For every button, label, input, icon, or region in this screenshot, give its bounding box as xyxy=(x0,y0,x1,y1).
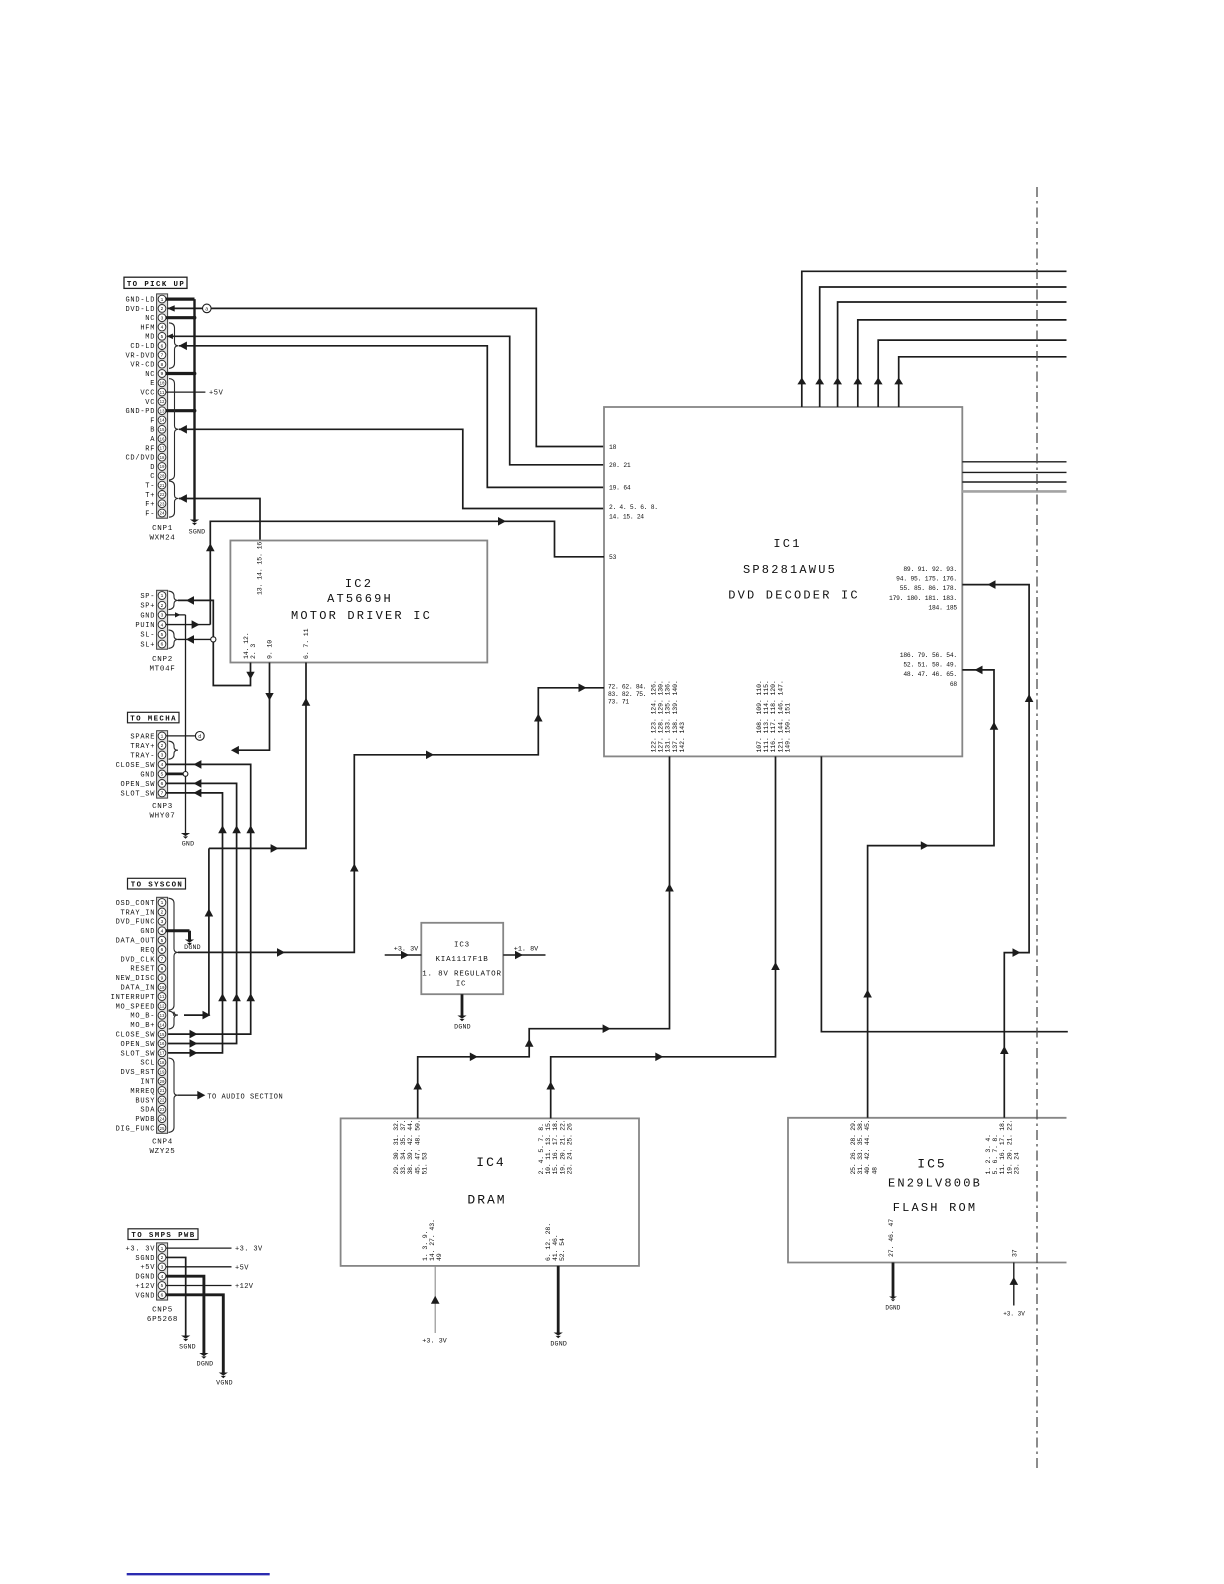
svg-text:72. 62. 84.: 72. 62. 84. xyxy=(608,684,646,691)
svg-text:GND: GND xyxy=(140,771,155,779)
blue footer line xyxy=(127,1573,270,1575)
bus wire 3 from IC1 top to sheet edge xyxy=(833,302,1066,407)
sheet boundary dash-dot line xyxy=(1036,187,1038,1468)
svg-text:IC2: IC2 xyxy=(345,577,373,591)
svg-text:INTERRUPT: INTERRUPT xyxy=(111,994,156,1002)
svg-text:T-: T- xyxy=(145,483,155,491)
svg-text:13. 14. 15. 16: 13. 14. 15. 16 xyxy=(256,542,263,595)
bus wire from IC1 right side 4 (gray) xyxy=(962,490,1066,493)
svg-text:+3. 3V: +3. 3V xyxy=(235,1246,263,1254)
brace CNP1 pins 21-24 xyxy=(169,481,179,517)
svg-text:45. 47. 48. 50.: 45. 47. 48. 50. xyxy=(414,1120,421,1175)
svg-text:CNP5: CNP5 xyxy=(152,1307,173,1315)
svg-text:6: 6 xyxy=(161,343,164,349)
svg-text:MOTOR DRIVER IC: MOTOR DRIVER IC xyxy=(291,609,432,623)
wire CNP3 SLOT_SW to CNP4 SLOT_SW xyxy=(166,789,227,1058)
svg-text:DGND: DGND xyxy=(197,1361,214,1368)
brace CNP3 pins 2-3 xyxy=(169,741,179,759)
svg-text:CNP3: CNP3 xyxy=(152,803,173,811)
IC4 bottom right pin labels 6,12,28,41,46,52,54 xyxy=(545,1223,566,1261)
svg-text:MO_SPEED: MO_SPEED xyxy=(116,1003,156,1011)
svg-text:1. 3. 9.: 1. 3. 9. xyxy=(422,1231,429,1261)
bus wire 1 from IC1 top to sheet edge xyxy=(797,271,1066,407)
svg-text:VCC: VCC xyxy=(140,390,155,398)
brace CNP2 pins 5-6 xyxy=(169,630,179,649)
connector CNP5 6P5268 xyxy=(125,1243,178,1324)
svg-text:4: 4 xyxy=(161,325,164,331)
svg-text:4: 4 xyxy=(161,762,164,768)
svg-text:20. 21: 20. 21 xyxy=(609,462,631,469)
svg-text:FLASH ROM: FLASH ROM xyxy=(893,1201,978,1215)
svg-text:5: 5 xyxy=(161,334,164,340)
svg-text:19: 19 xyxy=(159,1071,165,1075)
svg-text:+5V: +5V xyxy=(209,390,224,398)
svg-text:10. 11. 13. 15.: 10. 11. 13. 15. xyxy=(545,1120,552,1175)
svg-text:SLOT_SW: SLOT_SW xyxy=(121,1050,156,1058)
svg-text:1: 1 xyxy=(161,297,164,303)
svg-text:6. 7. 11: 6. 7. 11 xyxy=(303,628,310,659)
wire CNP1 DVD-LD pin 2 to IC1 pin 18 xyxy=(167,305,604,446)
ground symbol SGND under CNP1 bus xyxy=(189,520,206,536)
svg-text:1: 1 xyxy=(161,734,164,740)
bus wire from IC1 right side 2 xyxy=(962,471,1066,473)
IC U2 IC2 AT5669H motor driver xyxy=(230,541,487,663)
node d on CNP3 SPARE pin 1 xyxy=(166,732,204,741)
svg-text:CLOSE_SW: CLOSE_SW xyxy=(116,1032,156,1040)
svg-text:RESET: RESET xyxy=(130,966,155,974)
node a on DVD-LD wire xyxy=(203,304,212,313)
svg-text:179. 180. 181. 183.: 179. 180. 181. 183. xyxy=(889,595,957,602)
svg-text:29. 30. 31. 32.: 29. 30. 31. 32. xyxy=(393,1120,400,1175)
svg-text:DVD_FUNC: DVD_FUNC xyxy=(116,919,156,927)
svg-text:4: 4 xyxy=(161,622,164,628)
brace CNP1 pins 4-8 xyxy=(169,323,179,369)
svg-text:HFM: HFM xyxy=(140,324,155,332)
svg-text:11. 16. 17. 18.: 11. 16. 17. 18. xyxy=(999,1120,1006,1175)
svg-text:DVS_RST: DVS_RST xyxy=(121,1069,156,1077)
svg-text:REQ: REQ xyxy=(140,947,155,955)
svg-text:27. 46. 47: 27. 46. 47 xyxy=(888,1219,895,1257)
svg-text:MD: MD xyxy=(145,334,155,342)
svg-text:37: 37 xyxy=(1012,1249,1019,1257)
svg-text:IC4: IC4 xyxy=(476,1155,505,1170)
svg-text:16: 16 xyxy=(159,438,165,442)
svg-text:5: 5 xyxy=(161,632,164,638)
wire IC4 right pins to IC1 bottom pins 107-151 xyxy=(546,756,779,1118)
svg-text:SP-: SP- xyxy=(140,593,155,601)
svg-text:VR-DVD: VR-DVD xyxy=(125,352,155,360)
svg-text:13: 13 xyxy=(159,410,165,414)
IC4 top right pin labels 2-26 xyxy=(538,1120,573,1175)
bus wire 6 from IC1 top to sheet edge xyxy=(894,357,1066,407)
wire CNP2 SP pins to IC2 pins 14,12 xyxy=(178,596,255,685)
wire CNP1 pins 4-8 group to IC1 pins 19,64 xyxy=(179,342,604,488)
svg-text:18: 18 xyxy=(609,444,617,451)
svg-text:TO AUDIO SECTION: TO AUDIO SECTION xyxy=(207,1094,283,1102)
svg-text:137. 138. 139. 140.: 137. 138. 139. 140. xyxy=(672,680,679,752)
svg-text:TO SMPS PWB: TO SMPS PWB xyxy=(131,1232,195,1240)
svg-text:+12V: +12V xyxy=(235,1283,254,1291)
connector CNP1 WXM24 xyxy=(125,294,175,543)
svg-text:MO_B+: MO_B+ xyxy=(130,1022,155,1030)
svg-text:149. 150. 151: 149. 150. 151 xyxy=(784,703,791,753)
svg-text:RF: RF xyxy=(145,445,155,453)
svg-text:d: d xyxy=(198,734,201,740)
wire CNP2 PUIN pin 4 to IC1 pin 53 xyxy=(166,517,604,629)
svg-text:2: 2 xyxy=(161,306,164,312)
svg-text:9: 9 xyxy=(161,371,164,377)
svg-text:5. 6. 7. 8.: 5. 6. 7. 8. xyxy=(992,1134,999,1174)
IC U4 IC4 DRAM xyxy=(341,1118,639,1266)
svg-text:15. 16. 17. 18.: 15. 16. 17. 18. xyxy=(552,1120,559,1175)
svg-text:F-: F- xyxy=(145,510,155,518)
svg-text:23: 23 xyxy=(159,1109,165,1113)
svg-text:GND-PD: GND-PD xyxy=(125,408,155,416)
wire IC2 pins 9,10 to CNP3 TRAY pins xyxy=(231,663,274,755)
svg-text:TO MECHA: TO MECHA xyxy=(130,716,177,724)
IC4 top left pin labels 29-53 xyxy=(393,1120,428,1175)
svg-text:9. 10: 9. 10 xyxy=(267,640,274,659)
svg-text:21: 21 xyxy=(159,1090,165,1094)
svg-text:68: 68 xyxy=(950,681,958,688)
svg-text:9: 9 xyxy=(161,975,164,981)
svg-text:53: 53 xyxy=(609,554,617,561)
svg-text:15: 15 xyxy=(159,1034,165,1038)
svg-text:52. 54: 52. 54 xyxy=(559,1238,566,1261)
svg-text:8: 8 xyxy=(161,362,164,368)
IC4 bottom left pin labels 1,3,9,14,27,43,49 xyxy=(422,1219,443,1261)
svg-text:BUSY: BUSY xyxy=(135,1097,155,1105)
ground wire IC5 to DGND xyxy=(892,1263,895,1297)
svg-text:DRAM: DRAM xyxy=(467,1193,506,1208)
svg-text:12: 12 xyxy=(159,401,165,405)
svg-text:5: 5 xyxy=(161,938,164,944)
svg-text:2: 2 xyxy=(161,1255,164,1261)
bus wire from IC1 right side 3 xyxy=(962,481,1066,483)
svg-text:EN29LV800B: EN29LV800B xyxy=(888,1177,982,1191)
svg-text:KIA1117F1B: KIA1117F1B xyxy=(435,956,488,964)
svg-text:DGND: DGND xyxy=(184,944,201,951)
svg-text:VGND: VGND xyxy=(135,1292,155,1300)
svg-text:PWDB: PWDB xyxy=(135,1116,155,1124)
svg-text:8: 8 xyxy=(161,966,164,972)
svg-text:3: 3 xyxy=(161,753,164,759)
svg-text:11: 11 xyxy=(159,392,165,396)
bus wire from IC1 right side 1 xyxy=(962,461,1066,463)
svg-text:MO_B-: MO_B- xyxy=(130,1013,155,1021)
svg-text:6P5268: 6P5268 xyxy=(147,1316,178,1324)
IC5 top right pin labels 1-24 xyxy=(985,1120,1020,1175)
svg-text:SCL: SCL xyxy=(140,1060,155,1068)
IC5 top left pin labels 25-48 xyxy=(850,1120,878,1175)
svg-text:142. 143: 142. 143 xyxy=(679,722,686,753)
svg-text:4: 4 xyxy=(161,1274,164,1280)
ground symbol GND below CNP3 xyxy=(181,833,194,848)
IC U3 IC3 KIA1117F18 1.8V regulator xyxy=(421,923,503,994)
svg-text:SLOT_SW: SLOT_SW xyxy=(121,790,156,798)
svg-text:14. 27. 43.: 14. 27. 43. xyxy=(429,1219,436,1261)
svg-text:TRAY-: TRAY- xyxy=(130,752,155,760)
svg-text:41. 46.: 41. 46. xyxy=(552,1234,559,1261)
svg-text:D: D xyxy=(150,464,155,472)
brace CNP4 pins 13-14 xyxy=(169,1011,179,1029)
svg-text:3: 3 xyxy=(161,315,164,321)
wire IC5 right pins 1-24 to IC1 right pins 89-185 xyxy=(962,580,1033,1118)
wire IC1 bottom pin to sheet edge crossing IC5 wire xyxy=(821,756,1067,1031)
wire CNP5 pin 3 +5V xyxy=(166,1264,249,1272)
svg-text:IC3: IC3 xyxy=(454,941,470,949)
svg-text:107. 108. 109. 110.: 107. 108. 109. 110. xyxy=(756,680,763,752)
svg-text:MT04F: MT04F xyxy=(149,666,175,674)
svg-text:SL-: SL- xyxy=(140,632,155,640)
ground wire IC3 to DGND xyxy=(461,994,464,1015)
svg-text:B: B xyxy=(150,427,155,435)
svg-text:OSD_CONT: OSD_CONT xyxy=(116,900,156,908)
wire IC4 left pins to IC1 bottom pins 122-143 xyxy=(413,756,673,1118)
label box TO SMPS PWB xyxy=(128,1229,198,1240)
wire IC1 right pins 186-68 to IC5 left pins 25-48 xyxy=(863,666,998,1118)
wire CNP3 OPEN_SW to CNP4 OPEN_SW xyxy=(166,779,241,1048)
svg-text:DATA_OUT: DATA_OUT xyxy=(116,938,156,946)
svg-text:73. 71: 73. 71 xyxy=(608,699,629,706)
wire +3.3V input to IC3 xyxy=(385,946,422,960)
wire IC5 pin 37 to +3.3V xyxy=(1003,1263,1025,1318)
svg-text:51. 53: 51. 53 xyxy=(421,1152,428,1174)
svg-text:GND-LD: GND-LD xyxy=(125,297,155,305)
svg-text:SDA: SDA xyxy=(140,1107,155,1115)
svg-text:TRAY+: TRAY+ xyxy=(130,743,155,751)
svg-text:PUIN: PUIN xyxy=(135,622,155,630)
svg-text:19. 20. 21. 22.: 19. 20. 21. 22. xyxy=(559,1120,566,1175)
svg-text:3: 3 xyxy=(161,1265,164,1271)
svg-text:19. 64: 19. 64 xyxy=(609,485,631,492)
svg-text:CNP1: CNP1 xyxy=(152,525,173,533)
SGND ground bus on CNP1 pins 1,3,9,13 xyxy=(166,299,196,519)
svg-text:38. 39. 42. 44.: 38. 39. 42. 44. xyxy=(407,1120,414,1175)
ground symbol DGND under IC5 xyxy=(885,1297,900,1312)
svg-text:6: 6 xyxy=(161,947,164,953)
svg-text:DATA_IN: DATA_IN xyxy=(121,985,156,993)
svg-text:13: 13 xyxy=(159,1015,165,1019)
svg-text:CNP4: CNP4 xyxy=(152,1139,173,1147)
svg-text:6. 12. 28.: 6. 12. 28. xyxy=(545,1223,552,1261)
svg-text:11: 11 xyxy=(159,996,165,1000)
svg-text:3: 3 xyxy=(161,613,164,619)
svg-text:23: 23 xyxy=(159,503,165,507)
svg-text:1: 1 xyxy=(161,593,164,599)
svg-text:2: 2 xyxy=(161,910,164,916)
svg-text:1. 2. 3. 4.: 1. 2. 3. 4. xyxy=(985,1134,992,1174)
svg-text:WXM24: WXM24 xyxy=(149,535,175,543)
bus wire 4 from IC1 top to sheet edge xyxy=(853,320,1066,407)
IC1 right pin number labels lower block xyxy=(900,652,958,688)
svg-text:6: 6 xyxy=(161,781,164,787)
wire CNP4 REQ group to IC1 pins 72,62,84,63,82,75,73,71 xyxy=(178,684,604,957)
svg-text:NC: NC xyxy=(145,371,155,379)
brace CNP4 pins 18-25 xyxy=(169,1058,179,1132)
svg-text:1. 8V REGULATOR: 1. 8V REGULATOR xyxy=(422,970,502,978)
svg-text:7: 7 xyxy=(161,957,164,963)
ground symbol DGND under CNP5 xyxy=(197,1353,214,1368)
svg-text:24: 24 xyxy=(159,1118,165,1122)
svg-text:+5V: +5V xyxy=(235,1264,249,1272)
svg-text:52. 51. 50. 49.: 52. 51. 50. 49. xyxy=(903,662,957,669)
wire CNP5 pin 4 DGND xyxy=(166,1276,204,1353)
svg-text:18: 18 xyxy=(159,1062,165,1066)
svg-text:TO PICK UP: TO PICK UP xyxy=(127,281,185,289)
svg-text:IC5: IC5 xyxy=(917,1157,946,1172)
svg-text:21: 21 xyxy=(159,485,165,489)
svg-text:20: 20 xyxy=(159,476,165,480)
svg-text:+3. 3V: +3. 3V xyxy=(1003,1311,1025,1318)
svg-text:SGND: SGND xyxy=(135,1255,155,1263)
svg-text:AT5669H: AT5669H xyxy=(327,592,393,606)
svg-text:3: 3 xyxy=(161,919,164,925)
svg-text:TO SYSCON: TO SYSCON xyxy=(131,882,184,890)
svg-text:7: 7 xyxy=(161,353,164,359)
svg-text:2: 2 xyxy=(161,603,164,609)
svg-text:31. 33. 35. 38.: 31. 33. 35. 38. xyxy=(857,1120,864,1175)
svg-text:GND: GND xyxy=(140,928,155,936)
wire +3.3V to IC4 bottom xyxy=(422,1266,447,1346)
svg-text:20: 20 xyxy=(159,1081,165,1085)
svg-text:19. 20. 21. 22.: 19. 20. 21. 22. xyxy=(1006,1120,1013,1175)
svg-text:15: 15 xyxy=(159,429,165,433)
svg-text:F+: F+ xyxy=(145,501,155,509)
svg-text:OPEN_SW: OPEN_SW xyxy=(121,1041,156,1049)
svg-text:1: 1 xyxy=(161,900,164,906)
svg-text:NEW_DISC: NEW_DISC xyxy=(116,975,156,983)
svg-text:a: a xyxy=(205,306,208,312)
svg-text:24: 24 xyxy=(159,513,165,517)
svg-text:GND: GND xyxy=(140,612,155,620)
svg-text:55. 85. 86. 178.: 55. 85. 86. 178. xyxy=(900,585,957,592)
svg-text:TRAY_IN: TRAY_IN xyxy=(121,909,156,917)
svg-text:25: 25 xyxy=(159,1128,165,1132)
svg-text:19: 19 xyxy=(159,466,165,470)
ground symbol DGND under IC3 xyxy=(454,1016,471,1031)
label box TO MECHA xyxy=(128,712,180,723)
svg-text:SPARE: SPARE xyxy=(130,733,155,741)
ground symbol VGND under CNP5 xyxy=(216,1373,233,1387)
IC2 bottom pin label 14,12 / 2,3 xyxy=(243,632,257,659)
wire CNP1 pins 21-24 group to IC2 pins 13,14,15,16 xyxy=(179,494,260,540)
ground stub CNP4 GND pin 4 to DGND xyxy=(166,931,190,940)
svg-text:+5V: +5V xyxy=(140,1264,155,1272)
wire CNP1 MD pin 5 to IC1 pins 20,21 xyxy=(167,334,604,465)
svg-text:2. 4. 5. 6. 8.: 2. 4. 5. 6. 8. xyxy=(609,504,658,511)
svg-text:+3. 3V: +3. 3V xyxy=(422,1338,447,1346)
wire IC3 output +1.8V xyxy=(503,946,545,960)
svg-text:CLOSE_SW: CLOSE_SW xyxy=(116,762,156,770)
svg-text:48: 48 xyxy=(871,1167,878,1175)
svg-text:SGND: SGND xyxy=(179,1344,196,1351)
wire CNP4 pins 18-25 to audio section xyxy=(178,1091,283,1102)
svg-text:SP+: SP+ xyxy=(140,603,155,611)
svg-text:IC1: IC1 xyxy=(773,537,801,551)
svg-text:14: 14 xyxy=(159,1024,165,1028)
svg-text:CD-LD: CD-LD xyxy=(130,343,155,351)
+5V stub on CNP1 pin 11 VCC xyxy=(166,390,224,398)
svg-text:F: F xyxy=(150,417,155,425)
svg-text:186. 79. 56. 54.: 186. 79. 56. 54. xyxy=(900,652,957,659)
svg-text:5: 5 xyxy=(161,772,164,778)
svg-text:VGND: VGND xyxy=(216,1379,233,1386)
svg-text:NC: NC xyxy=(145,315,155,323)
svg-text:VC: VC xyxy=(145,399,155,407)
IC U1 IC1 SP8281AWU5 DVD decoder xyxy=(604,407,962,756)
svg-text:MRREQ: MRREQ xyxy=(130,1088,155,1096)
svg-text:2. 3: 2. 3 xyxy=(250,644,257,659)
svg-text:DGND: DGND xyxy=(135,1274,155,1282)
svg-text:111. 113. 114. 115.: 111. 113. 114. 115. xyxy=(763,680,770,752)
svg-text:CD/DVD: CD/DVD xyxy=(125,455,155,463)
svg-text:INT: INT xyxy=(140,1079,155,1087)
IC1 right pin number labels upper block xyxy=(889,566,957,611)
svg-text:DVD-LD: DVD-LD xyxy=(125,306,155,314)
svg-text:OPEN_SW: OPEN_SW xyxy=(121,781,156,789)
svg-text:16: 16 xyxy=(159,1043,165,1047)
IC1 bottom pin number labels pins 122-143 xyxy=(651,680,686,752)
ground symbol DGND at CNP4 xyxy=(184,940,201,952)
wire IC2 pins 6,7,11 to CNP4 MO_B pins xyxy=(184,663,310,1020)
wire CNP3 CLOSE_SW to CNP4 CLOSE_SW xyxy=(166,760,255,1038)
ground wire IC4 to DGND xyxy=(557,1266,560,1333)
svg-text:VR-CD: VR-CD xyxy=(130,362,155,370)
svg-text:14: 14 xyxy=(159,420,165,424)
svg-text:WZY25: WZY25 xyxy=(149,1148,175,1156)
svg-text:17: 17 xyxy=(159,448,165,452)
wire CNP5 pin 1 +3.3V xyxy=(166,1246,263,1254)
svg-text:DGND: DGND xyxy=(454,1024,471,1031)
svg-text:SP8281AWU5: SP8281AWU5 xyxy=(743,563,837,577)
svg-text:7: 7 xyxy=(161,791,164,797)
IC U5 IC5 EN29LV800B flash ROM xyxy=(788,1118,1067,1263)
svg-text:116. 117. 118. 120.: 116. 117. 118. 120. xyxy=(770,680,777,752)
svg-text:4: 4 xyxy=(161,928,164,934)
svg-text:C: C xyxy=(150,473,155,481)
wire CNP5 pin 2 SGND xyxy=(166,1257,186,1335)
bus wire 2 from IC1 top to sheet edge xyxy=(815,287,1066,407)
svg-text:10: 10 xyxy=(159,383,165,387)
svg-text:23. 24. 25. 26: 23. 24. 25. 26 xyxy=(566,1123,573,1174)
svg-text:DIG_FUNC: DIG_FUNC xyxy=(116,1126,156,1134)
stub CNP3 GND pin 5 to ground line junction xyxy=(166,772,188,777)
wire CNP2 SL pins to junction on SP wire xyxy=(178,635,216,644)
svg-text:GND: GND xyxy=(182,841,194,848)
wire CNP1 pins 10-20 group to IC1 pins 2,4,5,6,8,14,15,24 xyxy=(179,425,604,509)
IC1 left pin number labels xyxy=(608,444,658,706)
svg-text:6: 6 xyxy=(161,1293,164,1299)
svg-text:40. 42. 44. 45.: 40. 42. 44. 45. xyxy=(864,1120,871,1175)
wire CNP5 pin 5 +12V xyxy=(166,1283,254,1291)
svg-text:2: 2 xyxy=(161,743,164,749)
svg-text:25. 26. 28. 29.: 25. 26. 28. 29. xyxy=(850,1120,857,1175)
svg-text:94. 95. 175. 176.: 94. 95. 175. 176. xyxy=(896,576,957,583)
svg-text:DVD_CLK: DVD_CLK xyxy=(121,956,156,964)
svg-text:+12V: +12V xyxy=(135,1283,155,1291)
wire CNP5 pin 6 VGND xyxy=(166,1295,223,1373)
svg-text:22: 22 xyxy=(159,1100,165,1104)
svg-text:+3. 3V: +3. 3V xyxy=(394,946,419,954)
svg-text:14. 15. 24: 14. 15. 24 xyxy=(609,513,644,520)
svg-text:WHY07: WHY07 xyxy=(149,813,175,821)
svg-text:12: 12 xyxy=(159,1006,165,1010)
svg-text:23. 24: 23. 24 xyxy=(1013,1152,1020,1174)
svg-text:+3. 3V: +3. 3V xyxy=(125,1246,155,1254)
svg-text:DGND: DGND xyxy=(550,1341,567,1348)
svg-text:1: 1 xyxy=(161,1246,164,1252)
